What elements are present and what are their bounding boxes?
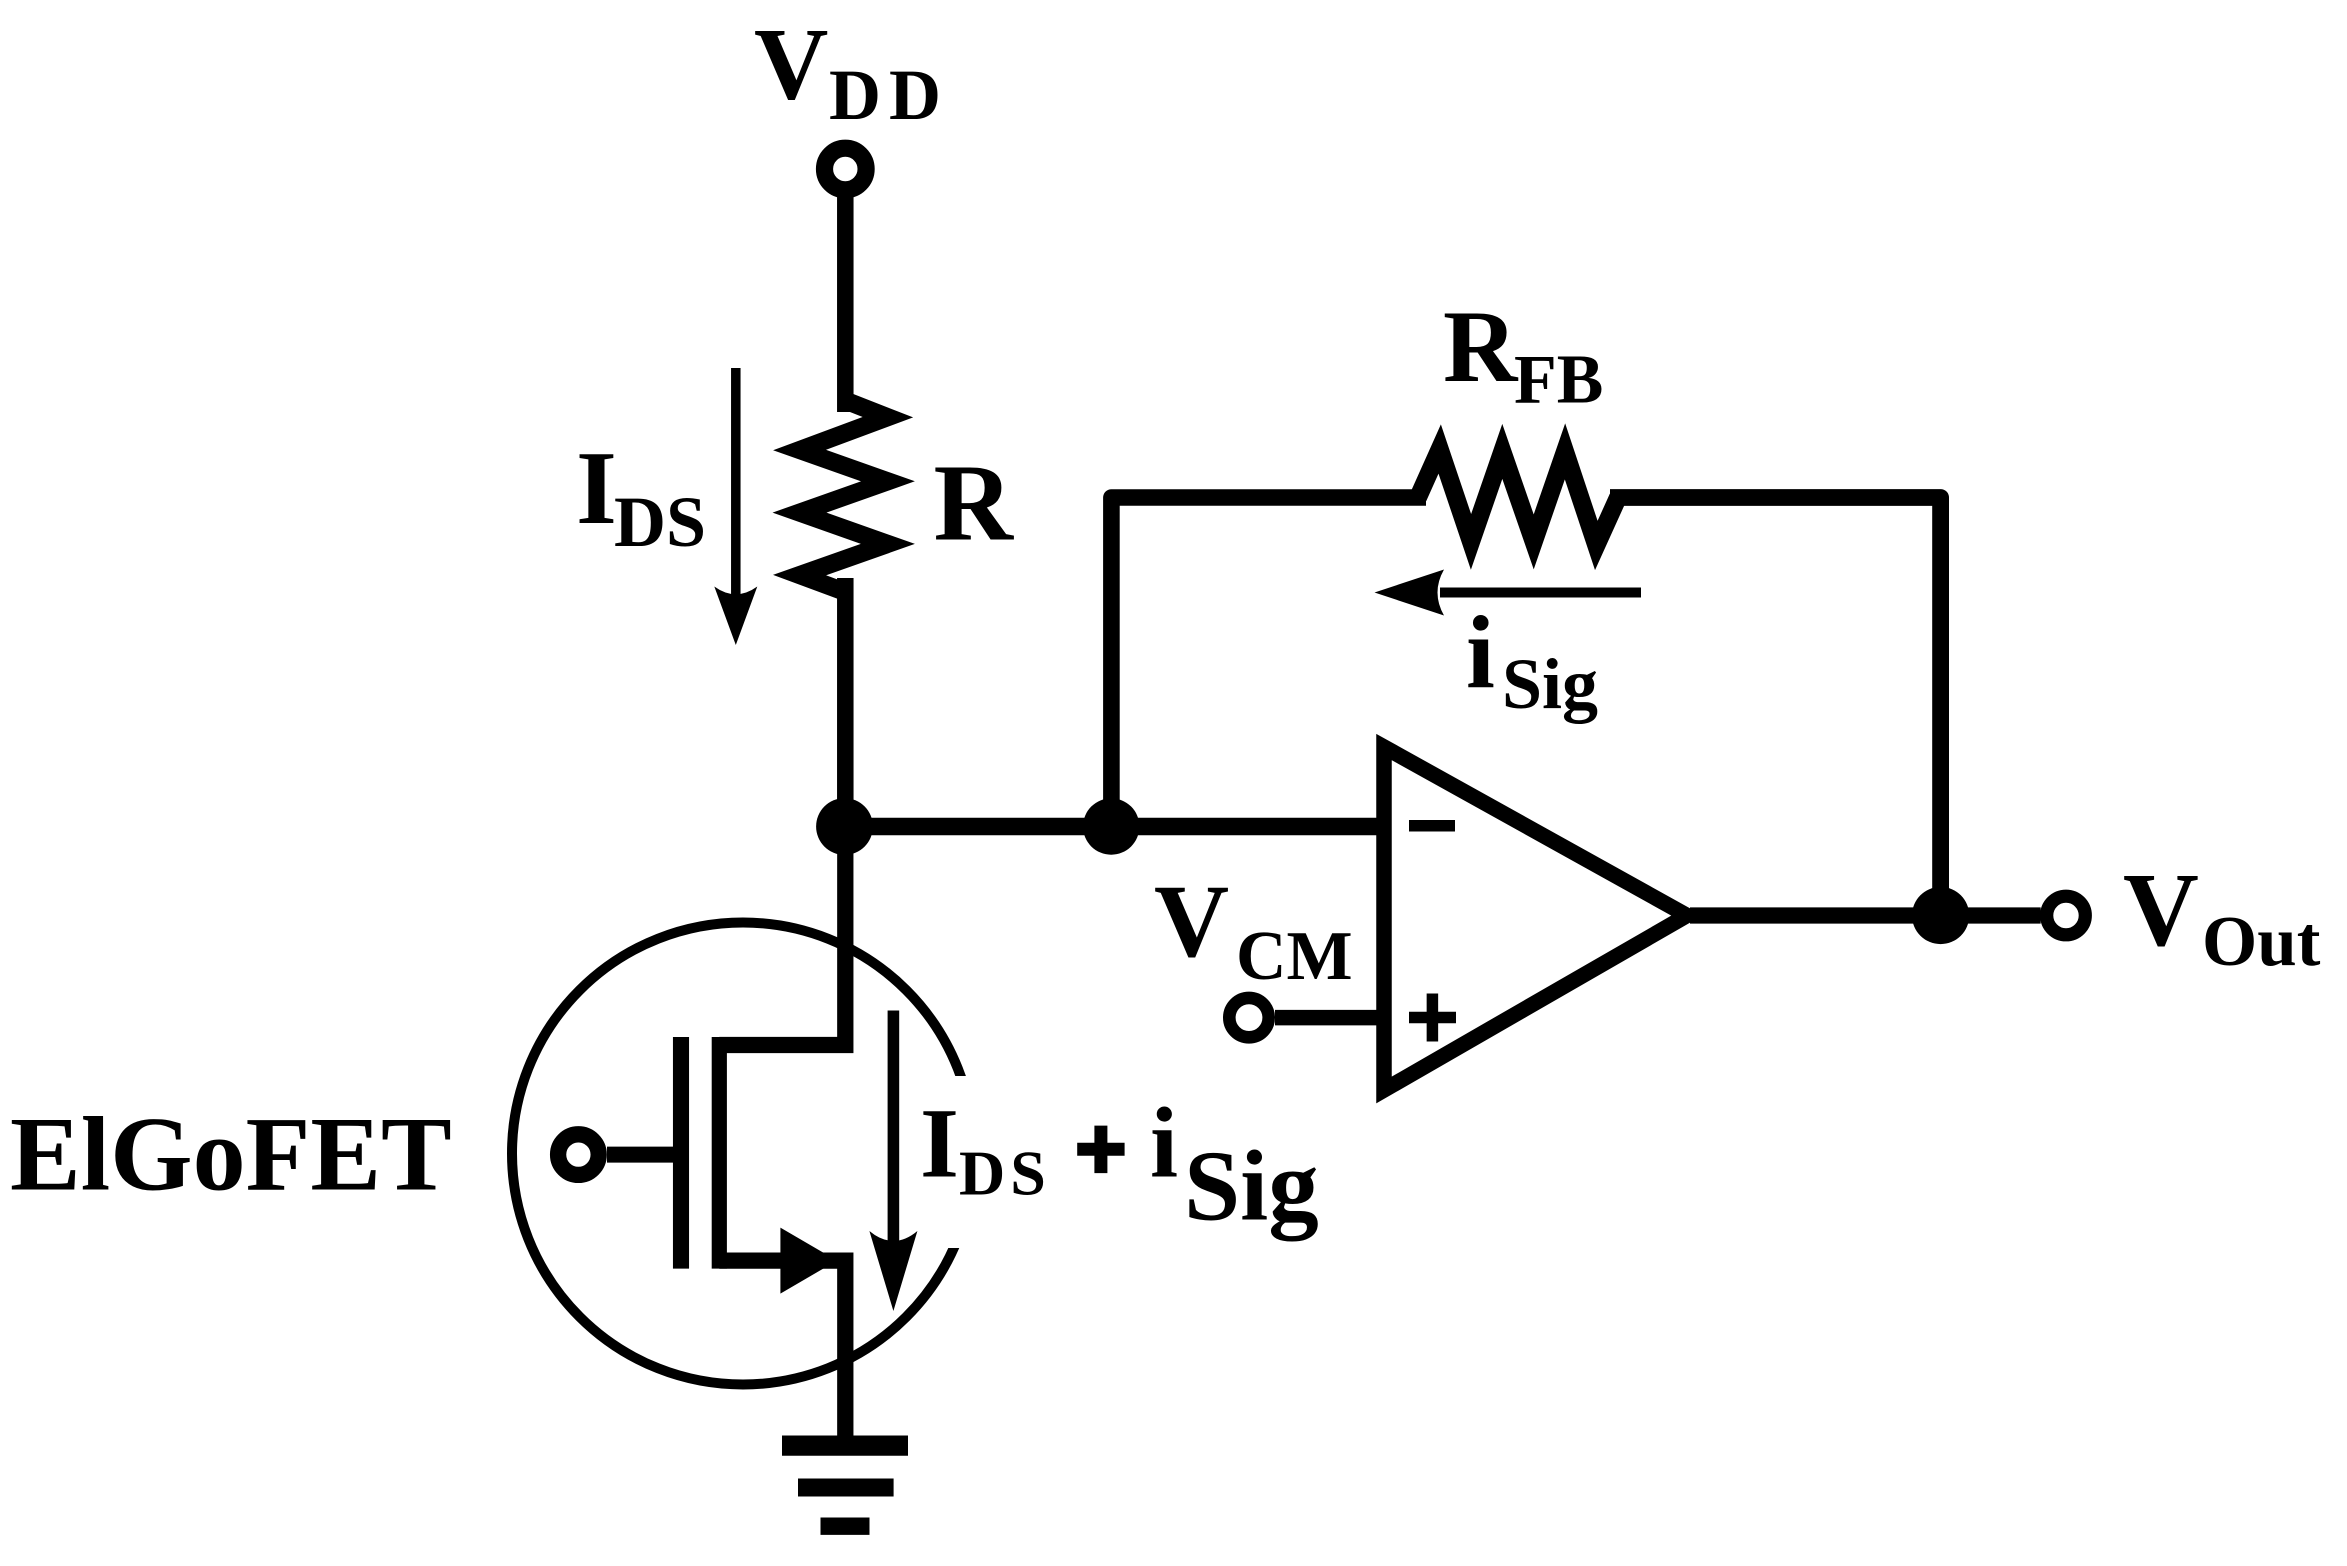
source connection wire	[719, 1261, 845, 1436]
svg-text:I: I	[920, 1088, 959, 1199]
svg-text:R: R	[934, 442, 1015, 564]
svg-text:DS: DS	[959, 1138, 1051, 1209]
wire node A to op-amp	[845, 818, 1385, 836]
svg-text:V: V	[1154, 864, 1229, 979]
wire VCM to op-amp	[1275, 1010, 1384, 1026]
svg-text:Sig: Sig	[1502, 644, 1598, 724]
output node	[1912, 887, 1969, 944]
ground	[782, 1446, 908, 1527]
svg-text:Out: Out	[2202, 903, 2321, 981]
op-amp U1	[1384, 747, 1687, 1090]
label RFB	[1443, 290, 1603, 418]
op-amp plus input marker	[1409, 994, 1456, 1042]
wire RFB to output node	[1610, 498, 1941, 916]
svg-text:Sig: Sig	[1184, 1130, 1319, 1242]
label IDS+iSig background mask	[903, 1076, 1313, 1248]
source arrowhead	[780, 1228, 837, 1294]
svg-text:V: V	[2123, 851, 2199, 968]
svg-text:V: V	[754, 7, 828, 121]
op-amp minus input marker	[1409, 820, 1455, 832]
label IDS+iSig	[920, 1087, 1319, 1242]
wire VDD to resistor R	[837, 197, 854, 412]
svg-text:ElGoFET: ElGoFET	[10, 1096, 452, 1213]
wire resistor R to node A	[837, 578, 854, 827]
svg-text:FB: FB	[1514, 341, 1603, 418]
node A	[816, 798, 873, 855]
current arrow IDS+iSig	[869, 1011, 917, 1312]
svg-text:DD: DD	[829, 55, 949, 135]
label VOut	[2123, 851, 2321, 981]
wire gate terminal to gate bar	[607, 1147, 681, 1163]
label VCM	[1154, 864, 1353, 995]
terminal VDD	[825, 148, 867, 190]
resistor RFB	[1418, 449, 1618, 546]
svg-text:i: i	[1150, 1087, 1178, 1199]
svg-text:R: R	[1443, 290, 1519, 404]
current arrow iSig	[1375, 570, 1642, 616]
label VDD	[754, 7, 949, 134]
transistor ElGoFET body circle	[512, 923, 974, 1385]
terminal VOut	[2047, 896, 2086, 935]
channel bar	[712, 1037, 727, 1269]
terminal VCM	[1229, 998, 1268, 1037]
svg-text:DS: DS	[614, 482, 706, 562]
gate electrode bar	[673, 1037, 689, 1269]
svg-text:i: i	[1466, 595, 1495, 710]
label IDS	[576, 429, 706, 562]
svg-text:I: I	[576, 429, 617, 546]
current arrow IDS	[714, 368, 757, 645]
wire op-amp output	[1690, 907, 2041, 923]
terminal gate	[558, 1134, 599, 1175]
wire node B to RFB	[1111, 498, 1426, 827]
label iSig	[1466, 595, 1598, 724]
resistor R	[800, 401, 888, 593]
node B	[1083, 798, 1139, 854]
drain connection wire	[719, 827, 845, 1046]
svg-text:CM: CM	[1236, 918, 1353, 995]
